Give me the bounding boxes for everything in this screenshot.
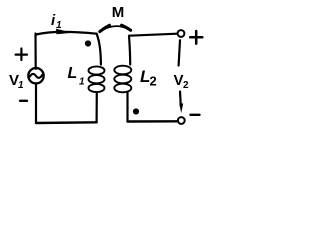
svg-text:1: 1: [18, 80, 24, 91]
svg-text:M: M: [112, 4, 125, 21]
svg-text:V: V: [174, 72, 184, 89]
wire: left loop bottom: [36, 121, 97, 124]
plus sign left: [16, 49, 27, 61]
minus sign right: [191, 114, 200, 116]
minus sign left: [20, 100, 27, 102]
wire: left loop left upper: [34, 34, 36, 69]
inductor L2: [114, 36, 131, 122]
mutual inductance arc M: [100, 26, 131, 32]
svg-text:1: 1: [79, 77, 85, 88]
svg-text:1: 1: [56, 20, 62, 31]
svg-text:2: 2: [150, 74, 157, 89]
wire: right loop top: [130, 34, 178, 36]
plus sign right: [190, 31, 202, 44]
inductor L1: [89, 34, 105, 123]
current arrow i1 head: [56, 29, 73, 34]
voltage V2 line upper: [179, 40, 180, 65]
svg-text:2: 2: [183, 80, 189, 91]
polarity dot L1: [85, 40, 91, 46]
wire: right loop bottom: [128, 120, 178, 123]
terminal bottom: [178, 117, 185, 124]
voltage V2 arrow: [179, 92, 182, 107]
wire: left loop top: [36, 32, 97, 35]
source V1: [28, 68, 43, 83]
wire: left loop left lower: [35, 84, 37, 123]
polarity dot L2: [133, 108, 139, 114]
svg-text:L: L: [68, 65, 78, 82]
terminal top: [178, 30, 185, 37]
